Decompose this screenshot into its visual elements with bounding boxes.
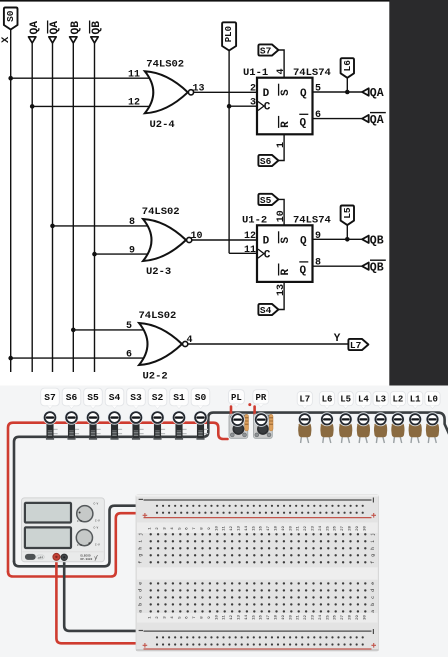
svg-text:20: 20 (289, 526, 293, 531)
switch S5 (97, 428, 101, 430)
svg-text:10: 10 (215, 615, 219, 620)
svg-text:27: 27 (341, 526, 345, 531)
svg-text:a: a (371, 610, 376, 613)
svg-text:18: 18 (275, 526, 279, 531)
switch S2 (161, 428, 165, 430)
label chip S4 (105, 388, 124, 406)
junction on QA_bar bus (50, 224, 55, 229)
svg-text:g: g (371, 554, 376, 557)
svg-text:6: 6 (126, 349, 132, 360)
svg-text:U1-2: U1-2 (242, 214, 267, 226)
svg-text:L6: L6 (322, 395, 333, 405)
svg-text:L2: L2 (392, 395, 403, 405)
svg-text:b: b (137, 603, 143, 606)
svg-text:C-V: C-V (95, 520, 100, 523)
svg-text:U2-3: U2-3 (146, 266, 171, 278)
svg-text:C-V: C-V (77, 544, 82, 547)
flag PL0 (clock input) (222, 22, 236, 50)
junction on QB bus (71, 328, 76, 333)
svg-text:R: R (280, 269, 292, 276)
svg-text:26: 26 (334, 615, 338, 620)
svg-text:12: 12 (244, 231, 256, 242)
wire PL0 to U1-1 C (229, 105, 257, 107)
svg-text:1: 1 (276, 142, 287, 148)
wire U1-1 Qbar to QA_bar flag (313, 118, 363, 120)
svg-text:L0: L0 (427, 395, 438, 405)
wire red PSU loop to breadboard top plus (8, 513, 156, 576)
switch S6 (75, 428, 79, 430)
svg-text:2: 2 (250, 83, 256, 94)
svg-text:QA: QA (49, 21, 61, 35)
nor gate U2-2 (139, 323, 182, 365)
svg-text:S7: S7 (44, 392, 56, 403)
svg-text:23: 23 (312, 615, 316, 620)
wire U1-2 Qbar to QB_bar flag (313, 265, 363, 267)
svg-text:a: a (138, 610, 143, 613)
wire pin5 input (73, 329, 148, 331)
svg-text:12: 12 (230, 526, 234, 531)
svg-text:C-V: C-V (94, 503, 99, 506)
wire pin6 input (11, 357, 148, 359)
svg-text:QB: QB (370, 261, 384, 274)
svg-text:g: g (138, 554, 143, 557)
svg-text:L5: L5 (342, 207, 353, 219)
svg-text:D: D (263, 236, 270, 248)
svg-text:QB: QB (91, 21, 103, 35)
label chip S1 (170, 388, 189, 406)
svg-text:C-V: C-V (95, 544, 100, 547)
label chip L0 (425, 391, 440, 405)
wire black terminal to breadboard bottom minus (64, 557, 155, 631)
label chip L4 (356, 391, 371, 405)
svg-text:QA: QA (29, 21, 41, 35)
wire PL0 to U1-2 C (229, 252, 257, 254)
svg-text:C: C (264, 102, 271, 114)
svg-text:4: 4 (276, 68, 287, 74)
junction on QA bus (30, 104, 35, 109)
wire U1-2 R to S4 (278, 282, 284, 310)
node QA (top flag) (29, 37, 36, 43)
dark side panel (389, 0, 448, 386)
svg-text:16: 16 (260, 615, 264, 620)
svg-text:S0: S0 (5, 10, 16, 22)
svg-text:c: c (138, 596, 143, 599)
svg-text:9: 9 (129, 245, 135, 256)
LED L6 (322, 437, 325, 444)
svg-text:74LS74: 74LS74 (293, 67, 331, 79)
label chip S6 (62, 388, 81, 406)
svg-text:h: h (137, 547, 143, 550)
wire U1-2 Q to QB flag (313, 238, 363, 240)
svg-text:L6: L6 (342, 60, 353, 72)
label chip L1 (408, 391, 423, 405)
svg-text:27: 27 (341, 615, 345, 620)
flag L6 (341, 58, 354, 78)
svg-text:18: 18 (275, 615, 279, 620)
nor gate U2-3 (143, 219, 186, 261)
svg-text:25: 25 (326, 526, 330, 531)
svg-text:14: 14 (245, 526, 249, 531)
node QA_bar (top flag) (49, 37, 56, 43)
wire red switch bus (8, 423, 228, 572)
svg-text:L5: L5 (340, 395, 351, 405)
svg-text:S4: S4 (260, 305, 272, 316)
svg-text:14: 14 (245, 615, 249, 620)
flag S7 (258, 44, 278, 55)
wire to L6 flag (346, 78, 348, 92)
wire U1-1 R to S6 (278, 134, 284, 160)
svg-text:26: 26 (334, 526, 338, 531)
wire S7 to U1-1 S (278, 50, 284, 78)
svg-text:L1: L1 (410, 395, 421, 405)
svg-text:S6: S6 (66, 392, 78, 403)
svg-text:74LS02: 74LS02 (139, 310, 177, 322)
svg-text:b: b (370, 603, 376, 606)
svg-text:16: 16 (260, 526, 264, 531)
push button PR (254, 414, 273, 438)
svg-text:12: 12 (128, 98, 140, 109)
svg-text:j: j (137, 533, 143, 536)
svg-text:f: f (370, 561, 376, 564)
wire black PSU loop to breadboard top minus (14, 506, 156, 567)
svg-text:21: 21 (297, 615, 301, 620)
svg-text:19: 19 (282, 615, 286, 620)
junction on X bus (8, 76, 13, 81)
label chip S7 (41, 388, 60, 406)
svg-text:U2-2: U2-2 (143, 371, 168, 383)
svg-text:25: 25 (326, 615, 330, 620)
power supply PS1 (22, 498, 105, 562)
svg-text:S: S (280, 237, 292, 244)
red junction dot (248, 403, 251, 406)
svg-text:S7: S7 (260, 45, 272, 56)
junction QA / L6 (345, 90, 350, 95)
svg-text:12: 12 (230, 615, 234, 620)
svg-text:22: 22 (304, 526, 308, 531)
wire red stub PL (230, 407, 233, 420)
label chip L3 (373, 391, 388, 405)
LED L7 (300, 437, 303, 444)
svg-text:PL: PL (231, 393, 242, 403)
label chip S3 (127, 388, 146, 406)
svg-text:29: 29 (356, 615, 360, 620)
svg-text:10: 10 (276, 210, 287, 222)
label chip PL (229, 390, 245, 404)
svg-text:21: 21 (297, 526, 301, 531)
svg-text:S1: S1 (173, 392, 185, 403)
svg-text:S: S (280, 89, 292, 96)
svg-text:3: 3 (250, 97, 256, 108)
wire pin12 input (32, 105, 154, 107)
label chip S0 (191, 388, 210, 406)
svg-text:30: 30 (363, 526, 367, 531)
svg-text:U1-1: U1-1 (243, 67, 268, 79)
wire PL0 vertical (228, 51, 230, 254)
wire red terminal to breadboard bottom plus (56, 557, 155, 643)
wire U2-3 output to U1-2 D (192, 239, 257, 241)
svg-text:L7: L7 (350, 340, 362, 351)
junction on X bus lower (8, 356, 13, 361)
svg-text:S2: S2 (152, 392, 164, 403)
svg-text:PL0: PL0 (224, 26, 234, 42)
wire bus QA_bar vertical (52, 43, 54, 372)
svg-text:24: 24 (319, 526, 323, 531)
svg-text:22: 22 (304, 615, 308, 620)
label chip S2 (148, 388, 167, 406)
node QB (top flag) (70, 37, 77, 43)
svg-text:e: e (138, 582, 143, 585)
svg-text:13: 13 (238, 615, 242, 620)
nor gate U2-4 (145, 71, 188, 113)
svg-text:e: e (371, 582, 376, 585)
svg-text:17: 17 (267, 615, 271, 620)
LED L2 (393, 437, 396, 444)
svg-text:28: 28 (349, 615, 353, 620)
junction QB / L5 (345, 237, 350, 242)
svg-text:QA: QA (370, 114, 384, 127)
switch S1 (183, 428, 187, 430)
switch S0 (204, 428, 208, 430)
svg-text:11: 11 (223, 615, 227, 620)
junction PL0 at U1-1 (227, 104, 232, 109)
flag L7 (348, 339, 368, 350)
svg-text:Q: Q (300, 88, 307, 100)
svg-text:17: 17 (267, 526, 271, 531)
wire bus QB_bar vertical (94, 43, 96, 372)
svg-text:23: 23 (312, 526, 316, 531)
svg-text:Y: Y (334, 333, 341, 345)
svg-text:20: 20 (289, 615, 293, 620)
switch S4 (118, 428, 122, 430)
label chip L2 (390, 391, 405, 405)
svg-text:10: 10 (215, 526, 219, 531)
label chip S5 (84, 388, 103, 406)
svg-text:8: 8 (129, 217, 135, 228)
svg-text:X: X (0, 36, 12, 43)
switch S3 (140, 428, 144, 430)
svg-text:U2-4: U2-4 (150, 119, 175, 131)
svg-text:R: R (280, 121, 292, 128)
switch S7 (54, 428, 58, 430)
LED L4 (358, 437, 361, 444)
flag L5 (341, 206, 354, 226)
svg-text:S5: S5 (87, 392, 99, 403)
flip-flop U1-1 (74LS74) (257, 78, 313, 135)
console background (0, 386, 448, 657)
svg-text:d: d (370, 589, 376, 592)
LED L1 (410, 437, 413, 444)
wire Y output (188, 343, 349, 345)
flip-flop U1-2 (74LS74) (257, 225, 313, 282)
node QA (right flag) (362, 88, 369, 95)
svg-text:L7: L7 (299, 395, 310, 405)
svg-text:h: h (370, 547, 376, 550)
label chip PR (253, 390, 269, 404)
node QB_bar (top flag) (91, 37, 98, 43)
svg-text:11: 11 (128, 70, 140, 81)
node QA_bar (right flag) (362, 115, 369, 122)
wire U1-1 Q to QA flag (313, 91, 363, 93)
svg-text:Q: Q (300, 265, 307, 277)
svg-text:30: 30 (363, 615, 367, 620)
svg-text:QB: QB (70, 21, 82, 35)
wire red stub PR (253, 407, 256, 420)
svg-text:Q: Q (300, 118, 307, 130)
svg-text:j: j (370, 533, 376, 536)
wire pin9 input (95, 253, 153, 255)
LED L0 (427, 437, 430, 444)
wire S5 to U1-2 S (278, 199, 284, 225)
svg-text:74LS74: 74LS74 (293, 214, 331, 226)
svg-text:11: 11 (223, 526, 227, 531)
flag S6 (258, 155, 278, 166)
svg-text:13: 13 (276, 284, 287, 296)
svg-text:5: 5 (126, 321, 132, 332)
wire U2-4 output to U1-1 D (194, 91, 257, 93)
wire black switch bus (14, 413, 448, 562)
svg-text:S6: S6 (260, 156, 272, 167)
wire pin8 input (53, 225, 153, 227)
label chip L5 (338, 391, 353, 405)
svg-text:15: 15 (252, 526, 256, 531)
svg-text:d: d (137, 589, 143, 592)
push button PL (229, 414, 248, 438)
wire to L5 flag (346, 225, 348, 239)
svg-text:QA: QA (370, 87, 384, 100)
wire bus X vertical (10, 29, 12, 372)
svg-text:19: 19 (282, 526, 286, 531)
svg-text:S3: S3 (130, 392, 142, 403)
breadboard (136, 495, 379, 652)
svg-text:29: 29 (356, 526, 360, 531)
svg-text:C: C (264, 249, 271, 261)
label chip L6 (319, 391, 334, 405)
svg-text:15: 15 (252, 615, 256, 620)
svg-text:S0: S0 (195, 392, 207, 403)
svg-text:f: f (137, 561, 143, 564)
svg-text:24: 24 (319, 615, 323, 620)
svg-text:Q: Q (300, 236, 307, 248)
svg-text:i: i (370, 540, 376, 543)
svg-text:i: i (137, 540, 143, 543)
flag S4 (258, 304, 278, 315)
LED L5 (341, 437, 344, 444)
node QB (right flag) (362, 236, 369, 243)
wire bus QB vertical (72, 43, 74, 372)
wire bus QA vertical (31, 43, 33, 372)
node QB_bar (right flag) (362, 263, 369, 270)
svg-text:c: c (371, 596, 376, 599)
svg-text:S4: S4 (109, 392, 121, 403)
flag S0 (input) (4, 8, 18, 30)
LED L3 (375, 437, 378, 444)
svg-text:9: 9 (315, 231, 321, 242)
svg-text:13: 13 (238, 526, 242, 531)
svg-text:11: 11 (244, 245, 256, 256)
svg-text:C-V: C-V (77, 520, 82, 523)
svg-text:DP-3003: DP-3003 (81, 558, 93, 561)
svg-text:L3: L3 (375, 395, 386, 405)
junction on QB_bar bus (92, 252, 97, 257)
top border line (0, 0, 448, 2)
svg-text:74LS02: 74LS02 (142, 206, 180, 218)
svg-text:QB: QB (370, 235, 384, 248)
wire pin11 input (11, 77, 154, 79)
flag S5 (258, 194, 278, 205)
svg-text:C-V: C-V (94, 527, 99, 530)
svg-text:PR: PR (255, 393, 266, 403)
svg-text:D: D (263, 88, 270, 100)
svg-text:L4: L4 (358, 395, 369, 405)
label chip L7 (297, 391, 312, 405)
svg-text:S5: S5 (260, 195, 272, 206)
svg-text:74LS02: 74LS02 (146, 59, 184, 71)
svg-text:off: off (38, 555, 43, 559)
svg-text:28: 28 (349, 526, 353, 531)
